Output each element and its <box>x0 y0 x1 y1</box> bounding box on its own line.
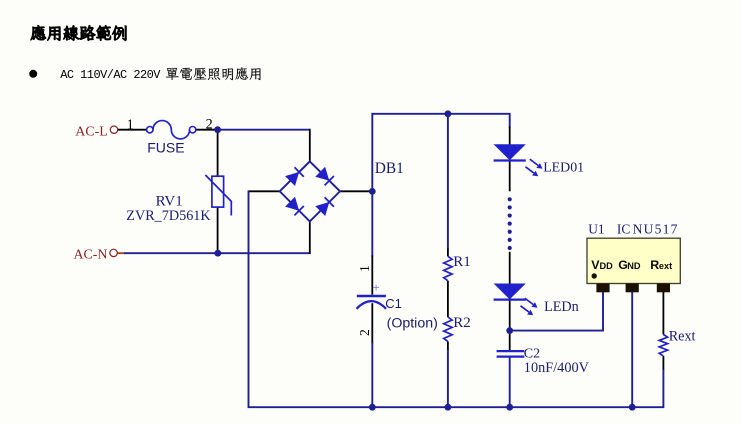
port AC-N terminal <box>110 249 117 256</box>
wire C1 to rail <box>371 343 373 408</box>
wire DC- and bottom rail and Rext riser <box>249 190 664 407</box>
capacitor C1 symbol <box>357 295 386 297</box>
IC U1 pin stub GND <box>626 284 639 293</box>
wire DB1 rail top and top rail <box>372 114 509 192</box>
svg-text:10nF/400V: 10nF/400V <box>524 360 590 376</box>
resistor R1 symbol <box>444 256 452 280</box>
wire fuse to node2 <box>196 129 218 131</box>
node rail R2 junction <box>445 404 452 411</box>
node DB1 output junction <box>369 188 376 195</box>
bridge diode D3 (left-bottom edge) <box>285 197 299 211</box>
wire Rext bottom lead <box>662 356 664 370</box>
bullet point <box>29 70 37 78</box>
svg-text:LEDn: LEDn <box>544 299 579 315</box>
LEDn light arrows <box>525 298 533 304</box>
svg-text:Rext: Rext <box>669 328 696 344</box>
wire node2 to bridge (net) <box>217 129 310 131</box>
wire R2 bottom lead <box>447 342 449 351</box>
svg-text:LED01: LED01 <box>543 160 584 175</box>
svg-text:+: + <box>373 283 380 295</box>
wire AC-N stub red <box>117 252 124 254</box>
bridge diode D2 (top-right edge) <box>315 167 329 181</box>
resistor Rext symbol <box>659 335 667 357</box>
wire R1 to R2 <box>447 281 449 317</box>
LEDn symbol <box>494 284 526 300</box>
svg-text:R1: R1 <box>453 254 471 270</box>
IC U1 pin stub Rext <box>657 284 670 293</box>
wire LED01 top lead <box>509 127 511 145</box>
LED01 light arrows <box>530 159 538 165</box>
svg-text:2: 2 <box>206 116 213 132</box>
node rail C2 junction <box>506 404 513 411</box>
svg-text:AC 110V/AC 220V: AC 110V/AC 220V <box>60 68 161 82</box>
LED01 symbol <box>494 144 526 160</box>
bridge diode D4 (bottom-right edge) <box>315 202 329 216</box>
fuse F1 symbol <box>147 127 153 133</box>
svg-text:FUSE: FUSE <box>147 139 184 155</box>
wire LED01 bottom lead <box>509 160 511 191</box>
wire bridge bottom lead <box>309 221 311 254</box>
svg-text:U1: U1 <box>588 222 604 237</box>
svg-text:1: 1 <box>357 265 372 272</box>
wire AC-L lead <box>118 129 147 131</box>
wire C2 top lead <box>509 331 511 352</box>
wire VDD net <box>510 292 603 331</box>
resistor R2 symbol <box>444 317 452 341</box>
wire bridge right lead <box>340 190 372 192</box>
wire bridge top lead <box>309 129 311 162</box>
varistor RV1 symbol <box>212 176 224 207</box>
svg-text:(Option): (Option) <box>387 315 438 331</box>
title text 應用線路範例 <box>31 25 127 40</box>
ellipsis dots between LEDs <box>508 197 512 201</box>
node LEDn/C2/VDD junction <box>506 327 513 334</box>
wire C1 bottom lead <box>371 303 373 343</box>
IC U1 pin-1 dot <box>592 273 597 278</box>
svg-text:VDDGNDRext: VDDGNDRext <box>591 258 672 272</box>
wire LEDn top lead <box>509 252 511 284</box>
svg-text:DB1: DB1 <box>375 160 404 177</box>
wire LEDn bottom lead <box>509 299 511 330</box>
svg-text:IC: IC <box>617 222 630 237</box>
svg-text:R2: R2 <box>453 315 471 331</box>
svg-text:NU517: NU517 <box>633 222 679 237</box>
node AC-N junction <box>214 250 221 257</box>
IC U1 pin stub VDD <box>596 284 609 293</box>
wire RV1 to AC-N node <box>217 207 219 253</box>
wire GND net <box>631 292 633 407</box>
wire Rext top lead <box>662 292 664 335</box>
wire bridge left lead <box>249 190 280 192</box>
node rail GND junction <box>629 404 636 411</box>
bridge diode D1 (left-top edge) <box>285 172 299 186</box>
svg-text:1: 1 <box>127 117 134 133</box>
IC U1 body <box>587 238 680 283</box>
wire node2 to RV1 <box>217 129 219 176</box>
svg-text:ZVR_7D561K: ZVR_7D561K <box>126 208 211 224</box>
wire DB1 rail to C1 <box>371 191 373 256</box>
wire R1 top lead <box>447 249 449 257</box>
svg-text:C1: C1 <box>385 296 402 311</box>
node rail C1 junction <box>369 404 376 411</box>
port AC-L terminal <box>110 126 117 133</box>
svg-text:AC-N: AC-N <box>74 247 108 262</box>
wire C1 top lead <box>371 256 373 295</box>
wire R branch lower <box>447 350 449 408</box>
capacitor C2 symbol <box>497 350 525 352</box>
wire C2 to rail <box>509 357 511 408</box>
bridge rectifier DB1 outline <box>280 161 340 221</box>
node top rail junction <box>445 110 452 117</box>
svg-text:2: 2 <box>357 329 372 336</box>
wire R branch upper <box>447 114 449 250</box>
svg-text:AC-L: AC-L <box>75 124 107 139</box>
wire AC-N net <box>124 252 310 254</box>
node 2 junction <box>214 126 221 133</box>
bullet CJK text 單電壓照明應用 <box>166 67 261 80</box>
